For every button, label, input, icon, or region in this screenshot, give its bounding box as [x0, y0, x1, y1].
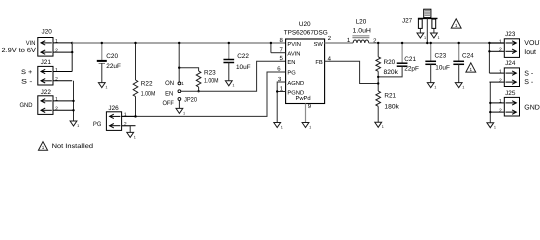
connector J25 pin numbers	[499, 99, 502, 114]
node junction JP20-VIN rail	[178, 42, 180, 44]
svg-text:22pF: 22pF	[404, 65, 419, 72]
svg-text:Iout: Iout	[524, 49, 536, 56]
svg-text:SW: SW	[313, 41, 323, 48]
svg-text:1.00M: 1.00M	[141, 90, 156, 97]
node junction J27-VOUT rail	[426, 42, 428, 44]
wire PwPd pad lead	[305, 104, 307, 123]
capacitor C21	[397, 63, 408, 66]
svg-text:1: 1	[470, 67, 473, 72]
svg-text:C23: C23	[435, 52, 447, 59]
wire J27 right shield lead	[433, 28, 435, 33]
svg-text:1: 1	[232, 84, 234, 88]
wire EN net JP20 to U20 EN	[181, 61, 286, 91]
svg-text:10uF: 10uF	[236, 64, 251, 71]
node junction C24-VOUT rail	[458, 42, 460, 44]
svg-text:S -: S -	[524, 71, 534, 78]
node junction R22-VIN rail	[134, 42, 136, 44]
node junction C21-R20	[377, 76, 379, 78]
svg-text:1: 1	[424, 36, 426, 40]
wire AVIN riser	[270, 43, 272, 53]
svg-text:2: 2	[55, 77, 58, 83]
node junction R20-VOUT rail	[377, 42, 379, 44]
node junction J22.2	[72, 109, 74, 111]
wire J27 left shield lead	[419, 28, 421, 33]
node junction AVIN riser on rail	[270, 42, 272, 44]
ground G13 (J27 right)	[431, 33, 440, 40]
svg-text:R23: R23	[204, 70, 216, 77]
wire J27 center pin to VOUT rail	[426, 18, 428, 43]
connector J27 probe symbol	[418, 9, 438, 28]
wire R23 top jog to VIN	[179, 68, 198, 71]
connector J23 pin numbers	[499, 39, 502, 53]
node junction J20.1	[71, 42, 73, 44]
connector J26 pin numbers	[124, 112, 127, 127]
node junction C23-VOUT rail	[430, 42, 432, 44]
svg-text:C20: C20	[106, 53, 118, 60]
svg-text:1.00M: 1.00M	[204, 78, 219, 85]
wire R22 top lead	[135, 43, 137, 80]
svg-text:22uF: 22uF	[106, 63, 121, 70]
svg-text:C24: C24	[462, 52, 474, 59]
svg-text:R21: R21	[384, 93, 396, 100]
resistor R23	[196, 71, 201, 87]
connector J22	[38, 96, 74, 115]
connector J25	[490, 97, 519, 116]
svg-text:PG: PG	[93, 121, 101, 128]
svg-text:PG: PG	[287, 69, 296, 76]
wire C21 top lead	[401, 43, 403, 63]
wire JP20 ON to VIN rail	[178, 43, 180, 82]
wire VOUT bus vertical J23.1-J24.1	[488, 43, 490, 73]
wire SW to L20	[325, 42, 354, 44]
resistor R21	[376, 91, 381, 106]
svg-text:820k: 820k	[384, 69, 399, 76]
ground G7 (PwPd)	[302, 123, 311, 130]
svg-text:GND: GND	[20, 102, 33, 109]
wire R20 top lead	[377, 43, 379, 57]
node junction C20-VIN rail	[101, 42, 103, 44]
svg-text:1: 1	[455, 23, 458, 28]
node junction J22.1	[72, 100, 74, 102]
svg-text:J21: J21	[41, 59, 52, 66]
svg-text:1: 1	[499, 69, 502, 75]
svg-text:J24: J24	[505, 60, 516, 67]
wire JP20 OFF to ground	[178, 101, 180, 109]
connector J20 pin numbers	[55, 39, 58, 54]
ground G11 (output connectors)	[487, 123, 496, 130]
svg-text:AVIN: AVIN	[287, 51, 300, 57]
node junction J23.2	[488, 50, 490, 52]
svg-text:J27: J27	[402, 17, 413, 24]
svg-text:J25: J25	[505, 90, 516, 97]
svg-text:1: 1	[55, 39, 58, 45]
svg-text:EN: EN	[165, 90, 173, 97]
svg-text:1: 1	[181, 81, 184, 86]
svg-text:VIN: VIN	[26, 40, 36, 47]
svg-text:1: 1	[134, 135, 136, 139]
svg-text:1: 1	[55, 67, 58, 73]
svg-text:ON: ON	[165, 80, 174, 87]
ground G4 (J26)	[127, 132, 136, 139]
svg-text:2: 2	[124, 122, 127, 128]
svg-text:VOUT: VOUT	[524, 40, 540, 47]
svg-text:C21: C21	[404, 56, 416, 63]
svg-text:TPS62067DSG: TPS62067DSG	[284, 30, 328, 37]
wire C23 top lead	[430, 43, 432, 61]
wire GND bus vertical J24.2-J25-ground	[489, 82, 491, 123]
connector J26	[106, 112, 135, 131]
wire AVIN lead	[271, 52, 286, 54]
svg-text:1: 1	[105, 86, 107, 90]
capacitor C24	[453, 61, 464, 64]
svg-text:EN: EN	[287, 60, 295, 66]
svg-text:1.0uH: 1.0uH	[353, 28, 372, 35]
svg-text:S -: S -	[21, 78, 32, 85]
jumper JP20	[178, 82, 181, 100]
svg-text:10uF: 10uF	[435, 64, 450, 71]
svg-text:JP20: JP20	[184, 96, 197, 103]
svg-text:1: 1	[499, 39, 502, 45]
wire VOUT rail	[369, 42, 505, 44]
wire C22 bottom lead	[228, 63, 230, 81]
node junction J23.1	[488, 42, 490, 44]
svg-text:1: 1	[499, 99, 502, 105]
not-installed flag (C24)	[466, 63, 476, 72]
svg-text:R20: R20	[384, 59, 396, 66]
svg-text:R22: R22	[141, 80, 153, 87]
connector J24	[489, 68, 519, 87]
svg-text:180k: 180k	[384, 103, 399, 110]
wire C24 top lead	[458, 43, 460, 61]
svg-text:1: 1	[309, 125, 311, 129]
svg-text:1: 1	[434, 86, 436, 90]
svg-text:1: 1	[382, 125, 384, 129]
ground G9 (C23)	[427, 83, 436, 90]
connector J21 pin numbers	[55, 67, 58, 82]
wire J26.2 to ground	[121, 126, 130, 133]
svg-text:L20: L20	[356, 18, 367, 25]
ground G6 (AGND/PGND)	[274, 123, 283, 130]
svg-text:C22: C22	[237, 53, 249, 60]
wire PGND lead	[277, 91, 285, 93]
wire C22 top lead	[228, 43, 230, 60]
svg-text:S +: S +	[21, 69, 33, 76]
resistor R22	[133, 80, 138, 97]
wire AGND lead to ground	[277, 82, 285, 123]
ground G12 (J27 left)	[417, 33, 426, 40]
svg-text:1: 1	[494, 126, 496, 130]
node junction FB-R20-R21	[377, 82, 379, 84]
ground G3 (JP20 OFF)	[176, 108, 185, 115]
svg-text:OFF: OFF	[163, 100, 174, 107]
resistor R20	[376, 57, 381, 72]
wire C21 bottom lead to R20	[378, 66, 402, 77]
svg-text:PwPd: PwPd	[296, 95, 311, 102]
ground G5 (C22)	[225, 81, 234, 88]
ground G10 (C24)	[455, 83, 464, 90]
node junction AGND-PGND	[276, 90, 278, 92]
svg-text:2: 2	[499, 47, 502, 53]
svg-text:1: 1	[183, 111, 185, 115]
svg-text:1: 1	[55, 97, 58, 103]
svg-text:2: 2	[55, 48, 58, 54]
connector J21	[38, 66, 72, 85]
svg-text:1: 1	[77, 124, 79, 128]
capacitor C20	[97, 61, 107, 64]
connector J20	[38, 38, 72, 57]
node junction C21-VOUT rail	[401, 42, 403, 44]
ground G8 (R21)	[375, 122, 384, 129]
wire R20 bottom lead	[377, 71, 379, 91]
node junction C22-VIN rail	[228, 42, 230, 44]
svg-text:FB: FB	[315, 60, 323, 66]
svg-text:2: 2	[55, 106, 58, 112]
node junction J26.1-PG net	[134, 115, 136, 117]
wire C24 bottom lead	[458, 64, 460, 82]
op-amp U20 body	[286, 39, 325, 104]
svg-text:2: 2	[499, 78, 502, 84]
svg-text:AGND: AGND	[287, 80, 304, 87]
legend not-installed triangle	[38, 142, 47, 151]
wire C20 top lead	[101, 43, 103, 60]
ground G2 (C20)	[98, 83, 107, 90]
inductor L20 winding	[353, 40, 369, 43]
wire FB net	[325, 61, 379, 83]
svg-text:PVIN: PVIN	[287, 42, 301, 48]
connector J22 pin numbers	[55, 97, 58, 112]
wire C20 bottom lead	[101, 63, 103, 83]
svg-text:2: 2	[499, 108, 502, 114]
svg-text:S -: S -	[524, 79, 534, 86]
connector J23	[489, 39, 519, 58]
ground G1 (input connectors)	[70, 121, 79, 128]
node junction R22-PG net	[134, 115, 136, 117]
not-installed flag (J27)	[451, 19, 461, 28]
svg-text:2.9V to 6V: 2.9V to 6V	[2, 47, 36, 54]
node junction J20.2	[71, 51, 73, 53]
wire R22 bottom lead to PG net	[135, 97, 137, 117]
svg-text:GND: GND	[524, 104, 540, 111]
inductor L20 core bars	[352, 35, 369, 37]
wire R23 bottom lead	[198, 87, 200, 91]
node junction R23-EN net	[197, 90, 199, 92]
wire R21 bottom lead	[377, 106, 379, 122]
svg-text:1: 1	[42, 145, 45, 150]
wire PG net U20 to J26	[121, 72, 285, 116]
node junction R23 jog	[178, 67, 180, 69]
capacitor C22	[223, 60, 234, 63]
svg-text:J20: J20	[42, 28, 53, 35]
node junction J25.1	[489, 102, 491, 104]
wire VIN bus vertical J20.1-J21.1	[71, 43, 73, 72]
svg-text:J23: J23	[505, 31, 516, 38]
wire C23 bottom lead	[430, 64, 432, 82]
svg-text:Not Installed: Not Installed	[52, 143, 94, 150]
node junction J25.2	[489, 111, 491, 113]
svg-text:J26: J26	[108, 105, 119, 112]
svg-text:1: 1	[124, 112, 127, 118]
svg-text:1: 1	[438, 36, 440, 40]
connector J24 pin numbers	[499, 69, 502, 84]
svg-text:J22: J22	[41, 89, 52, 96]
svg-text:1: 1	[281, 125, 283, 129]
svg-text:1: 1	[462, 86, 464, 90]
svg-text:U20: U20	[299, 21, 311, 28]
capacitor C23	[425, 61, 436, 64]
wire GND bus vertical J21.2-J22-ground	[73, 81, 75, 121]
wire VIN rail	[72, 42, 285, 44]
